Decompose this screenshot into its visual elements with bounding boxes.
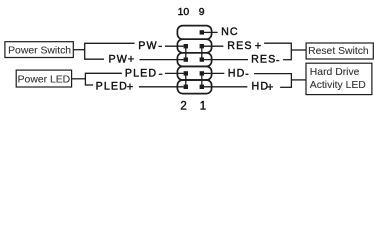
wire reset switch box stub [291,49,306,51]
component box Power LED [16,70,71,87]
svg-text:PLED: PLED [96,81,128,93]
wire HD+ from pin 1 [204,86,248,88]
svg-text:10: 10 [178,7,190,18]
wire PW+ to pin 6 [140,59,184,61]
svg-text:PW: PW [109,53,128,65]
connector header J1 pill row 3 (pins 6/5) [177,53,211,67]
wire RES- right segment [283,59,291,61]
wire PW+ left segment [85,58,104,60]
svg-text:9: 9 [199,7,205,18]
svg-text:HD: HD [228,67,246,79]
pin 3 (HD-) [200,71,204,75]
wire hdd led bracket vertical [290,73,292,88]
pin 1 (HD+) [200,85,204,89]
wire RES- from pin 5 [204,59,248,61]
connector header J1 pill row 4 (pins 4/3) [177,66,211,80]
wire pin 3 to pin 1 vertical link [201,73,203,86]
wire PLED- left segment [85,72,122,74]
svg-text:Reset Switch: Reset Switch [308,46,369,57]
connector header J1 pill row 1 (pins 10/9) [177,26,211,40]
wire PW- to pin 8 [165,45,184,47]
component box Hard Drive Activity LED [306,63,372,94]
svg-text:PW: PW [138,40,157,52]
wire power led box stub [71,78,85,80]
wire HD+ right segment [280,86,291,88]
pin 6 (PW+) [184,57,188,61]
pin 7 (RES+) [200,44,204,48]
pin 5 (RES-) [200,57,204,61]
svg-text:NC: NC [221,26,239,38]
wire RES+ right segment [264,42,291,44]
svg-text:HD: HD [252,81,270,93]
wire reset switch bracket vertical [290,43,292,61]
pin 9 (NC) [200,30,204,34]
wire hdd led box stub [291,79,306,81]
svg-text:RES: RES [227,40,252,52]
wire power led bracket vertical [84,73,86,86]
wire pin 8 to pin 6 vertical link [185,46,187,59]
component box Reset Switch [306,43,373,59]
wire pin 7 to pin 5 vertical link [201,46,203,59]
svg-text:Hard Drive: Hard Drive [310,67,360,78]
svg-text:1: 1 [200,100,206,112]
wire power switch box stub [73,49,85,51]
wire pin 4 to pin 2 vertical link [185,73,187,86]
wire PLED+ left segment [85,84,93,86]
svg-text:Power LED: Power LED [18,75,71,86]
pin 2 (PLED+) [184,85,188,89]
connector header J1 pill row 2 (pins 8/7) [177,39,211,53]
svg-text:Activity LED: Activity LED [310,80,366,91]
wire NC from pin 9 [204,31,218,33]
pin 8 (PW-) [184,44,188,48]
svg-text:Power Switch: Power Switch [8,46,71,57]
wire PLED- to pin 4 [165,72,184,74]
wire PLED+ to pin 2 [139,86,184,88]
svg-text:PLED: PLED [125,67,157,79]
wire power switch bracket vertical [84,43,86,60]
wire RES+ from pin 7 [204,45,224,47]
connector header J1 pill row 5 (pins 2/1) [177,80,211,94]
svg-text:2: 2 [180,100,186,112]
component box Power Switch [5,42,73,58]
svg-text:RES: RES [251,53,276,65]
wire HD- from pin 3 [204,72,224,74]
wire PW- left segment [85,42,135,44]
pin 4 (PLED-) [184,71,188,75]
wire HD- right segment [254,73,291,75]
